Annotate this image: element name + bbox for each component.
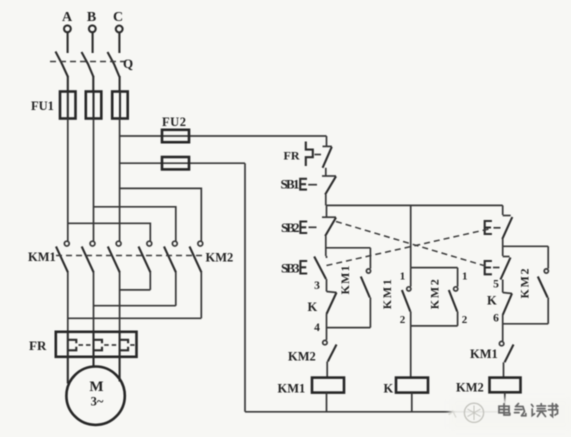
svg-text:KM2: KM2	[456, 381, 484, 395]
svg-text:1: 1	[462, 271, 468, 283]
svg-text:KM2: KM2	[206, 251, 234, 265]
svg-text:KM2: KM2	[428, 279, 442, 309]
svg-text:1: 1	[400, 271, 406, 283]
svg-text:4: 4	[314, 322, 320, 334]
svg-text:A: A	[62, 10, 73, 25]
svg-text:FU1: FU1	[31, 99, 54, 113]
svg-text:K: K	[308, 300, 318, 314]
svg-text:KM1: KM1	[28, 250, 56, 264]
svg-text:KM2: KM2	[288, 350, 316, 364]
svg-text:6: 6	[493, 313, 499, 325]
svg-text:C: C	[113, 10, 123, 25]
svg-text:FR: FR	[29, 338, 47, 353]
svg-text:SB1: SB1	[281, 176, 300, 191]
svg-text:2: 2	[400, 314, 406, 326]
svg-text:KM1: KM1	[380, 279, 394, 309]
svg-text:FR: FR	[284, 149, 300, 163]
svg-text:K: K	[487, 294, 497, 308]
svg-text:KM1: KM1	[338, 266, 352, 295]
svg-text:KM1: KM1	[470, 347, 498, 361]
svg-text:K: K	[384, 382, 394, 396]
svg-text:FU2: FU2	[162, 115, 186, 129]
svg-text:B: B	[87, 10, 96, 25]
svg-text:2: 2	[462, 314, 468, 326]
svg-text:Q: Q	[123, 56, 133, 71]
svg-text:3~: 3~	[91, 395, 104, 409]
svg-text:KM1: KM1	[278, 382, 306, 396]
svg-text:SB3: SB3	[281, 261, 300, 276]
svg-text:KM2: KM2	[518, 269, 532, 299]
svg-text:M: M	[89, 379, 103, 395]
svg-text:SB2: SB2	[281, 220, 300, 235]
svg-text:3: 3	[314, 280, 320, 292]
svg-text:5: 5	[493, 279, 499, 291]
